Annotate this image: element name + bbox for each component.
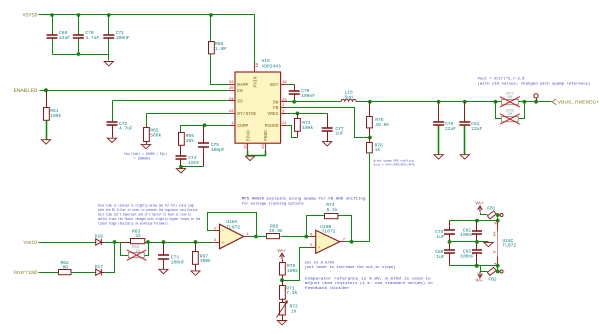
pin 28 SW bbox=[281, 101, 287, 103]
svg-text:= 200kHz: = 200kHz bbox=[134, 156, 151, 161]
power flag bbox=[536, 99, 538, 102]
wire FB to divider bbox=[287, 108, 370, 138]
svg-text:D16: D16 bbox=[95, 234, 104, 240]
resistor R62 bbox=[59, 270, 72, 275]
svg-text:Vout = Vctrl*5.7-2.9: Vout = Vctrl*5.7-2.9 bbox=[478, 76, 526, 81]
resistor R67 bbox=[195, 243, 197, 252]
pin 23 RAMP bbox=[229, 84, 235, 86]
svg-text:100k: 100k bbox=[302, 125, 313, 131]
svg-text:FB1: FB1 bbox=[487, 206, 496, 212]
svg-text:100k: 100k bbox=[50, 113, 61, 119]
svg-text:0R: 0R bbox=[63, 265, 69, 271]
svg-text:U18A: U18A bbox=[226, 219, 237, 225]
svg-text:1k: 1k bbox=[291, 308, 297, 314]
capacitor C73 bbox=[163, 243, 165, 256]
wire gnd mid rail bbox=[449, 241, 489, 243]
capacitor C72 bbox=[112, 101, 114, 122]
pin 21 PGOOD bbox=[281, 125, 287, 127]
pin 7 U18B bbox=[340, 241, 346, 243]
dnp cross R77 bbox=[500, 97, 520, 107]
resistor R78 DNP bbox=[502, 117, 519, 122]
node R63-R64 bbox=[146, 240, 150, 244]
ground C72 bbox=[107, 138, 116, 142]
svg-text:VsetD: VsetD bbox=[24, 240, 38, 246]
node C82 C83 mid bbox=[475, 240, 479, 244]
svg-text:100k: 100k bbox=[287, 268, 298, 274]
op-amp U18A bbox=[220, 224, 244, 249]
svg-text:TL072: TL072 bbox=[502, 243, 516, 249]
node FB2 bbox=[496, 270, 500, 274]
inductor L18 bbox=[341, 99, 356, 102]
wire R63 out to opamp bbox=[149, 242, 214, 244]
ground C78 bbox=[434, 155, 443, 159]
ground R65 bbox=[141, 144, 150, 148]
svg-text:28: 28 bbox=[282, 99, 287, 103]
node V+ pin bbox=[496, 219, 500, 223]
svg-text:22uF: 22uF bbox=[445, 126, 456, 132]
wire U18A out bbox=[250, 236, 267, 238]
resistor R73 bbox=[297, 114, 299, 119]
svg-text:ENABLED: ENABLED bbox=[14, 88, 38, 94]
svg-text:49.9k: 49.9k bbox=[375, 122, 389, 128]
node COMP junction bbox=[203, 123, 207, 127]
svg-text:Fall time isn't important and: Fall time isn't important and it's bette… bbox=[98, 213, 191, 218]
wire R78 loop bbox=[496, 102, 502, 119]
svg-text:7.3k: 7.3k bbox=[286, 290, 297, 296]
node FB1 bbox=[496, 213, 500, 217]
capacitor C81 bbox=[464, 102, 466, 122]
pin 2 FB bbox=[281, 107, 287, 109]
svg-text:EPAD: EPAD bbox=[245, 130, 251, 141]
svg-text:W/out opamp GND shifting: W/out opamp GND shifting bbox=[374, 158, 414, 162]
wire D16 out bbox=[105, 242, 121, 244]
svg-text:-: - bbox=[318, 235, 321, 240]
pin 22 RT/SYNC bbox=[229, 113, 235, 115]
svg-text:+: + bbox=[222, 241, 225, 246]
wire BST bbox=[287, 84, 295, 86]
svg-text:1k: 1k bbox=[136, 233, 142, 239]
svg-text:4.7uF: 4.7uF bbox=[85, 35, 99, 41]
capacitor C74 bbox=[180, 146, 182, 157]
svg-text:VA-: VA- bbox=[476, 277, 484, 283]
svg-text:20: 20 bbox=[229, 87, 234, 91]
svg-text:Comparator reference is 0.8V,: Comparator reference is 0.8V, 0.575V is … bbox=[305, 277, 431, 282]
wire R69 to U18B bbox=[281, 236, 310, 238]
power VA- supply bbox=[479, 272, 481, 277]
wire D17 to node bbox=[105, 243, 115, 273]
svg-text:100nF: 100nF bbox=[116, 35, 130, 41]
wire VSYSD top rail bbox=[39, 15, 255, 65]
wire V- rail bbox=[450, 265, 498, 267]
dnp cross R64 bbox=[127, 250, 147, 261]
svg-text:adjust used resistors (i.e. us: adjust used resistors (i.e. use standard… bbox=[305, 281, 433, 286]
ferrite bead FB1 bbox=[487, 211, 496, 219]
node VA- tap bbox=[475, 264, 479, 268]
node rail-flag bbox=[534, 100, 538, 104]
svg-text:RT/SYNC: RT/SYNC bbox=[237, 111, 257, 117]
svg-text:+: + bbox=[318, 246, 321, 251]
svg-text:1uF: 1uF bbox=[335, 131, 344, 137]
ground input caps bbox=[104, 62, 113, 66]
capacitor C80 bbox=[449, 242, 451, 251]
ferrite bead FB2 bbox=[487, 267, 496, 275]
resistor R75 bbox=[369, 102, 371, 117]
capacitor C77 bbox=[327, 114, 329, 128]
node C79 C80 mid bbox=[448, 240, 452, 244]
svg-text:22uF: 22uF bbox=[471, 126, 482, 132]
capacitor C82 bbox=[476, 221, 478, 231]
ground R72 bbox=[277, 321, 286, 325]
node VSYSD-C69 bbox=[50, 13, 54, 17]
unconnected pin circle top bbox=[500, 214, 503, 217]
capacitor C76 bbox=[294, 85, 296, 91]
svg-text:1uF: 1uF bbox=[436, 234, 445, 240]
svg-text:5.1k: 5.1k bbox=[327, 207, 338, 213]
svg-text:PVIN: PVIN bbox=[252, 76, 258, 87]
net label VBUS_PREREG+ bbox=[552, 99, 556, 105]
svg-text:TL072: TL072 bbox=[322, 229, 336, 235]
ic U19 ADP2443 body bbox=[235, 72, 281, 143]
svg-text:22uF: 22uF bbox=[59, 35, 70, 41]
svg-text:R64: R64 bbox=[132, 246, 140, 250]
svg-text:100nF: 100nF bbox=[460, 232, 474, 238]
wire VoverrideD to R62 bbox=[39, 272, 59, 274]
capacitor C70 bbox=[78, 15, 80, 35]
wire RT/SYNC bbox=[147, 113, 229, 115]
node rail-R77b bbox=[523, 100, 527, 104]
resistor R76 bbox=[369, 138, 371, 143]
wire V+ rail bbox=[450, 220, 498, 222]
wire U18B feedback right bbox=[338, 216, 352, 242]
capacitor C75 bbox=[203, 126, 205, 144]
node rail-C78 bbox=[437, 100, 441, 104]
svg-text:100k: 100k bbox=[200, 258, 211, 264]
capacitor C71 bbox=[108, 15, 110, 35]
pin 16 PVIN bbox=[254, 65, 256, 73]
wire U18A feedback bbox=[208, 213, 257, 237]
resistor R66 bbox=[179, 133, 185, 146]
wire COMP to R66 bbox=[181, 126, 205, 133]
node ENABLED-R61 bbox=[44, 88, 48, 92]
svg-text:feedback divider: feedback divider bbox=[305, 286, 350, 291]
wire V- to FB2 bbox=[481, 266, 488, 272]
resistor R68 bbox=[210, 15, 212, 42]
capacitor C69 bbox=[52, 15, 54, 35]
dnp cross R78 bbox=[500, 114, 520, 124]
node SW-C76 bbox=[292, 100, 296, 104]
ic U18C power body bbox=[497, 221, 499, 231]
pin 13 PGND bbox=[265, 144, 267, 151]
svg-text:TL072: TL072 bbox=[226, 224, 240, 230]
svg-text:25: 25 bbox=[245, 144, 249, 149]
node U18A out bbox=[254, 235, 258, 239]
wire L18 to output rail bbox=[357, 101, 552, 103]
resistor R69 bbox=[267, 234, 280, 239]
svg-text:U19: U19 bbox=[262, 58, 271, 64]
wire VA+ to FB1 bbox=[481, 213, 488, 215]
svg-text:100nF: 100nF bbox=[460, 253, 474, 259]
svg-text:23: 23 bbox=[229, 81, 234, 85]
capacitor C79 bbox=[449, 221, 451, 231]
ground C81 bbox=[460, 155, 469, 159]
wire FB1 to V+ bbox=[497, 215, 498, 221]
svg-text:(set lower to increase the out: (set lower to increase the out-in slope) bbox=[305, 265, 396, 270]
ground U19 pad bbox=[245, 156, 254, 160]
svg-text:PGOOD: PGOOD bbox=[265, 123, 279, 129]
wire U18B out bbox=[346, 241, 370, 243]
ground R67 bbox=[191, 271, 200, 275]
ground COMP network bbox=[176, 169, 185, 173]
svg-text:1uF: 1uF bbox=[436, 254, 445, 260]
resistor R72 trimmer bbox=[282, 299, 284, 303]
pin 5 U18B bbox=[310, 247, 316, 249]
pin 1 U18A bbox=[244, 236, 250, 238]
svg-text:with the RC filter in order to: with the RC filter in order to prevent t… bbox=[98, 208, 199, 213]
node U18B fb in bbox=[304, 235, 308, 239]
pin 3 U18A bbox=[214, 242, 220, 244]
svg-text:20k: 20k bbox=[186, 138, 195, 144]
wire U18B feedback left bbox=[307, 216, 325, 237]
pin 3 VREG bbox=[281, 113, 287, 115]
ground R61 bbox=[41, 140, 50, 144]
pin 19 BST bbox=[281, 84, 287, 86]
wire SW to L18 bbox=[287, 101, 341, 103]
svg-text:-: - bbox=[222, 229, 225, 234]
node R67 bbox=[194, 240, 198, 244]
svg-text:0R: 0R bbox=[508, 113, 513, 117]
node VREG-R73 bbox=[296, 112, 300, 116]
wire VREG bbox=[287, 113, 328, 115]
node VSYSD-R68 bbox=[209, 13, 213, 17]
wire VsetD to D16 bbox=[39, 242, 96, 244]
node rail-R75 bbox=[368, 100, 372, 104]
svg-text:0R: 0R bbox=[508, 96, 513, 100]
wire R62 to D17 bbox=[71, 272, 96, 274]
wire R61 to ground bbox=[46, 121, 48, 140]
wire EPAD PGND ground bbox=[248, 151, 266, 156]
svg-text:SS: SS bbox=[237, 98, 243, 104]
svg-text:EN: EN bbox=[237, 88, 243, 94]
ground C73 bbox=[159, 269, 168, 273]
resistor R71 bbox=[282, 281, 284, 286]
svg-text:100nF: 100nF bbox=[171, 259, 185, 265]
svg-text:16: 16 bbox=[256, 62, 260, 67]
node C82 top bbox=[475, 219, 479, 223]
svg-text:FB2: FB2 bbox=[488, 276, 497, 282]
svg-text:COMP: COMP bbox=[237, 123, 248, 129]
resistor R74 bbox=[325, 214, 338, 219]
pin 20 EN bbox=[229, 90, 235, 92]
svg-text:better track the faster change: better track the faster changes with sli… bbox=[98, 217, 200, 222]
svg-text:V+: V+ bbox=[493, 231, 498, 237]
node C73 bbox=[162, 240, 166, 244]
node FB divider bbox=[368, 136, 372, 140]
svg-text:100nF: 100nF bbox=[301, 93, 315, 99]
svg-text:1.8M: 1.8M bbox=[215, 46, 226, 52]
node VSYSD-C70 bbox=[77, 13, 81, 17]
svg-text:560k: 560k bbox=[150, 132, 161, 138]
wire cap bottom rail bbox=[53, 55, 109, 61]
resistor R63 bbox=[121, 242, 131, 244]
svg-text:VREG: VREG bbox=[267, 111, 278, 117]
unconnected pin circle bottom bbox=[500, 270, 503, 273]
wire ref to U18B + bbox=[283, 248, 310, 281]
wire ENABLED to EN bbox=[40, 90, 229, 92]
svg-text:4.7uF: 4.7uF bbox=[119, 126, 133, 132]
svg-text:fsw (kHz) = 10000 / R(k): fsw (kHz) = 10000 / R(k) bbox=[124, 152, 167, 157]
pin 25 EPAD bbox=[247, 144, 249, 151]
wire PGOOD to R73 bbox=[287, 126, 298, 138]
wire C74 C75 common bbox=[181, 166, 204, 168]
node C74 gnd bbox=[179, 165, 183, 169]
resistor R77 DNP bbox=[496, 101, 502, 103]
svg-text:24: 24 bbox=[229, 98, 234, 102]
diode D17 bbox=[96, 269, 102, 275]
capacitor C78 bbox=[438, 102, 440, 122]
svg-text:22: 22 bbox=[229, 110, 234, 114]
svg-text:BST: BST bbox=[270, 82, 279, 88]
svg-text:PGND: PGND bbox=[263, 130, 269, 141]
wire SS bbox=[113, 100, 229, 102]
svg-text:RAMP: RAMP bbox=[237, 82, 248, 88]
svg-text:V-: V- bbox=[493, 248, 498, 253]
svg-text:MPS AN036 explains using opamp: MPS AN036 explains using opamp for FB GN… bbox=[242, 197, 366, 202]
node D16-D17 bbox=[113, 240, 117, 244]
svg-text:linear stage (basically an env: linear stage (basically an envelope foll… bbox=[98, 222, 169, 227]
resistor R64 DNP bbox=[121, 243, 129, 256]
svg-text:VBUS_PREREG+: VBUS_PREREG+ bbox=[558, 99, 600, 105]
svg-text:13: 13 bbox=[262, 144, 266, 149]
svg-text:D17: D17 bbox=[95, 264, 104, 270]
pin 2 U18A bbox=[214, 230, 220, 232]
svg-text:ADP2443: ADP2443 bbox=[262, 64, 282, 70]
wire COMP bbox=[205, 125, 229, 127]
svg-text:Rise time is limited to slight: Rise time is limited to slightly below 1… bbox=[98, 203, 194, 208]
svg-text:100pF: 100pF bbox=[211, 147, 225, 153]
svg-text:VoverrideD: VoverrideD bbox=[14, 270, 38, 276]
node C83 bottom bbox=[475, 264, 479, 268]
svg-text:49.9k: 49.9k bbox=[269, 228, 283, 234]
svg-text:FB: FB bbox=[273, 105, 279, 111]
svg-text:1k: 1k bbox=[375, 147, 381, 153]
svg-text:(with sim values, changed with: (with sim values, changed with opamp ref… bbox=[478, 82, 591, 87]
node U18B out bbox=[350, 240, 354, 244]
svg-text:Vout = Vfb*(R75+R76)/R76: Vout = Vfb*(R75+R76)/R76 bbox=[374, 163, 415, 167]
svg-text:for voltage tracking options: for voltage tracking options bbox=[242, 201, 305, 206]
ground C77 bbox=[323, 142, 332, 146]
resistor R65 bbox=[146, 114, 148, 128]
pin 1 COMP bbox=[229, 125, 235, 127]
wire R68 to RAMP bbox=[211, 54, 229, 85]
pin 24 SS bbox=[229, 100, 235, 102]
ground opamp supply bbox=[484, 242, 493, 246]
svg-text:SW: SW bbox=[273, 99, 279, 105]
node rail-R77a bbox=[494, 100, 498, 104]
node rail-C81 bbox=[463, 100, 467, 104]
svg-text:5uH: 5uH bbox=[345, 94, 354, 100]
node cap-gnd rail bbox=[77, 52, 81, 56]
svg-text:10nF: 10nF bbox=[188, 160, 199, 166]
node VSYSD-C71 bbox=[107, 13, 111, 17]
svg-text:set to 0.575V: set to 0.575V bbox=[305, 262, 336, 266]
wire R76 to opamp out bbox=[369, 153, 371, 242]
op-amp U18B bbox=[316, 230, 340, 253]
resistor R61 bbox=[46, 91, 48, 108]
pin 6 U18B bbox=[310, 236, 316, 238]
diode D16 bbox=[96, 239, 102, 245]
wire FB2 to junction bbox=[497, 266, 498, 272]
capacitor C83 bbox=[476, 242, 478, 250]
svg-text:VA+: VA+ bbox=[475, 201, 484, 207]
node ref div bbox=[280, 278, 284, 282]
resistor R70 bbox=[282, 260, 284, 263]
svg-text:VSYSD: VSYSD bbox=[23, 13, 38, 19]
node V- pin bbox=[496, 264, 500, 268]
